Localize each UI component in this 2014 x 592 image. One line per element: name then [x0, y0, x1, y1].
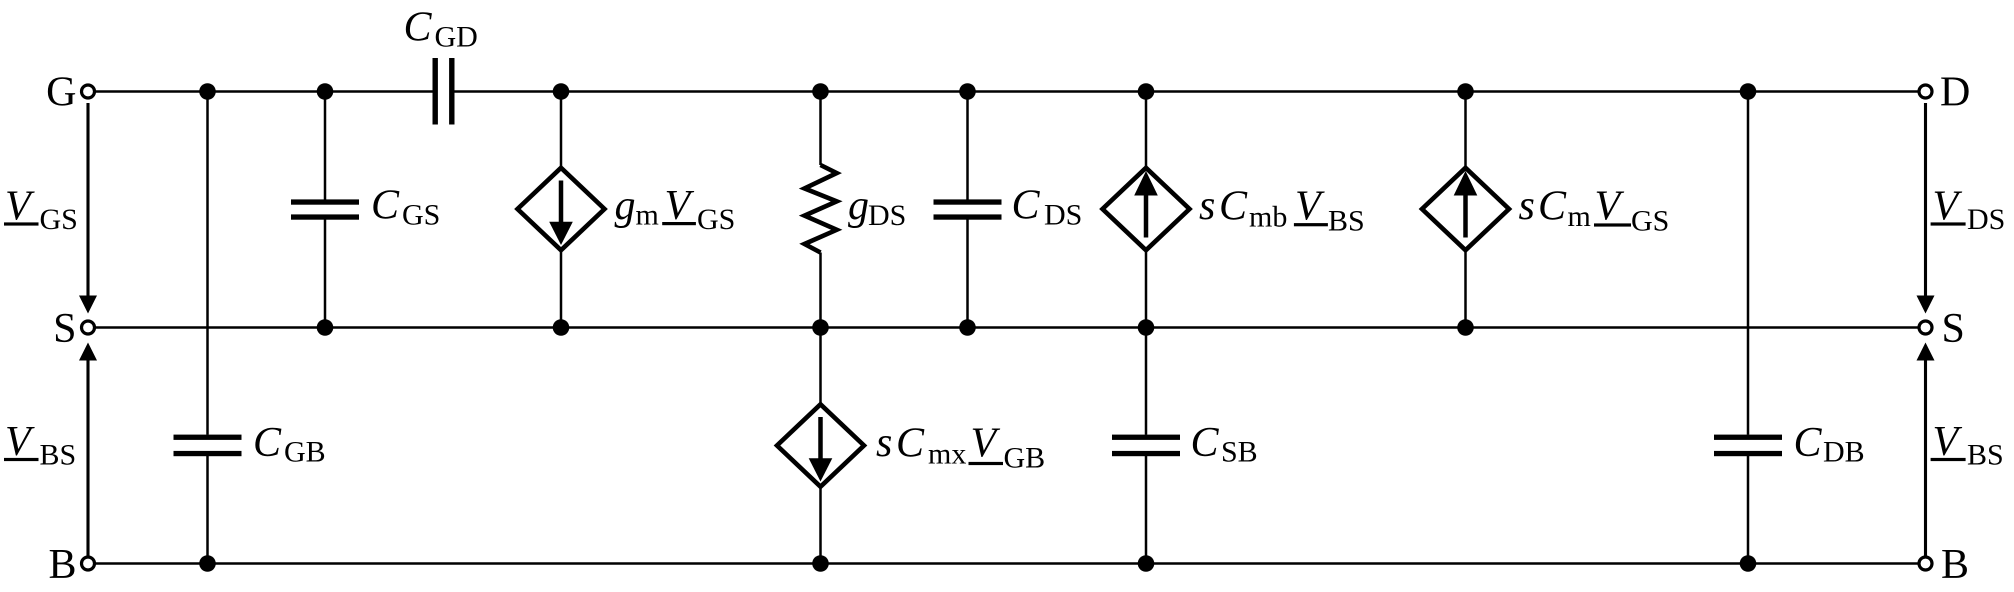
svg-text:m: m [636, 199, 659, 232]
capacitor C_GS [291, 199, 359, 219]
current source U4 sC_m V_GS (diamond, arrow up) [1422, 168, 1509, 250]
svg-text:C: C [1219, 184, 1248, 230]
arrow V_BS left (B up to S) [79, 343, 97, 557]
value label sC_mb V_BS [1199, 183, 1365, 238]
capacitor C_GB [174, 435, 242, 457]
wire: vertical branch x=1146 top (sCmbVbs source leads) [1145, 92, 1148, 328]
terminal G (open circle) [82, 85, 95, 98]
wire: vertical branch x=325 (C_GS branch) [324, 92, 327, 328]
svg-text:C: C [404, 5, 433, 51]
svg-text:DS: DS [1967, 203, 2005, 236]
svg-text:GS: GS [402, 199, 440, 232]
wire: top rail C_GD right plate to D terminal [455, 90, 1919, 93]
arrow V_DS right (D down to S) [1917, 103, 1935, 314]
value label C_GB [253, 420, 326, 469]
value label g_m V_GS [615, 183, 736, 236]
svg-text:s: s [876, 420, 892, 466]
svg-text:G: G [46, 70, 76, 116]
wire: vertical branch x=820.5 below middle (sCmxVgb source leads) [819, 328, 822, 564]
terminal D (open circle) [1919, 85, 1932, 98]
wire: vertical branch x=561 (gmVgs source leads) [560, 92, 563, 328]
svg-text:mb: mb [1249, 201, 1287, 234]
wire: bottom bulk rail B to B [96, 562, 1918, 565]
current source U1 g_m V_GS (diamond, arrow down) [518, 168, 605, 250]
wire: vertical branch x=967.5 (C_DS branch) [966, 92, 969, 328]
svg-text:C: C [371, 183, 400, 229]
svg-text:BS: BS [1967, 439, 2004, 472]
svg-text:g: g [848, 183, 869, 229]
svg-text:s: s [1519, 183, 1535, 229]
svg-text:V: V [1595, 184, 1625, 230]
value label C_SB [1191, 420, 1258, 469]
svg-text:GD: GD [435, 21, 478, 54]
svg-text:S: S [1942, 306, 1965, 352]
svg-text:C: C [896, 421, 925, 467]
svg-text:C: C [1794, 420, 1823, 466]
arrow V_GS left (G down to S) [79, 103, 97, 314]
value label C_GS [371, 183, 440, 232]
wire: vertical branch x=1146 bottom (C_SB branch) [1145, 328, 1148, 564]
svg-text:V: V [1295, 184, 1325, 230]
svg-text:B: B [48, 542, 76, 588]
value label C_GD [404, 5, 478, 54]
resistor g_DS (zigzag) [805, 165, 837, 253]
svg-text:S: S [53, 306, 76, 352]
svg-text:m: m [1568, 200, 1591, 233]
node junction dots top rail [199, 83, 1756, 100]
wire: top gate rail G to C_GD left plate [96, 90, 433, 93]
wire: middle source rail S to S [96, 326, 1918, 329]
wire: vertical branch x=820.5 (gDS resistor leads, top) [819, 92, 822, 328]
svg-text:C: C [253, 420, 282, 466]
value label V_BS left [4, 419, 76, 472]
current source U2 sC_mx V_GB (diamond, arrow down) [777, 404, 864, 486]
svg-text:GB: GB [1004, 442, 1046, 475]
svg-text:g: g [615, 183, 636, 229]
svg-text:C: C [1538, 184, 1567, 230]
svg-text:C: C [1191, 420, 1220, 466]
svg-text:BS: BS [40, 439, 77, 472]
capacitor C_GD (series in top rail) [433, 58, 455, 125]
capacitor C_SB [1112, 435, 1180, 457]
node junction dots middle rail [317, 319, 1474, 336]
capacitor C_DS [934, 199, 1002, 219]
terminal B left (open circle) [82, 557, 95, 570]
value label C_DB [1794, 420, 1865, 469]
svg-text:GS: GS [40, 203, 78, 236]
value label sC_mx V_GB [876, 420, 1045, 475]
svg-text:s: s [1199, 183, 1215, 229]
terminal B right (open circle) [1919, 557, 1932, 570]
svg-text:DS: DS [868, 199, 906, 232]
svg-text:DS: DS [1044, 199, 1082, 232]
wire: vertical branch x=1748 (C_DB branch, D rail to B rail) [1747, 92, 1750, 564]
svg-text:V: V [971, 421, 1001, 467]
svg-text:DB: DB [1823, 436, 1865, 469]
value label V_BS right [1931, 419, 2004, 472]
value label C_DS [1012, 183, 1083, 232]
svg-text:SB: SB [1221, 436, 1258, 469]
terminal S left (open circle) [82, 321, 95, 334]
value label V_GS left [4, 184, 78, 237]
wire: vertical branch x=207.5 (C_GB branch, G rail to B rail) [206, 92, 209, 564]
node junction dots bottom rail [199, 555, 1756, 572]
svg-text:mx: mx [928, 438, 966, 471]
svg-text:GS: GS [1631, 205, 1669, 238]
terminal S right (open circle) [1919, 321, 1932, 334]
svg-text:GS: GS [697, 203, 735, 236]
svg-text:D: D [1940, 70, 1970, 116]
wire: vertical branch x=1465.5 (sCmVgs source leads) [1464, 92, 1467, 328]
svg-text:C: C [1012, 183, 1041, 229]
current source U3 sC_mb V_BS (diamond, arrow up) [1103, 168, 1190, 250]
svg-text:B: B [1941, 542, 1969, 588]
value label g_DS [848, 183, 906, 232]
arrow V_BS right (B up to S) [1917, 343, 1935, 557]
value label sC_m V_GS [1519, 183, 1670, 238]
svg-text:BS: BS [1328, 205, 1365, 238]
value label V_DS right [1931, 184, 2006, 237]
capacitor C_DB [1714, 435, 1782, 457]
svg-text:GB: GB [284, 436, 326, 469]
